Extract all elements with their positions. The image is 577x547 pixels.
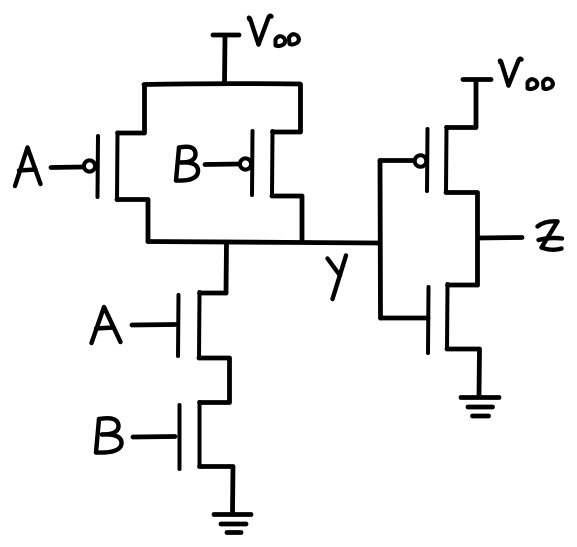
node Y rail — [148, 242, 379, 244]
label B (NMOS) — [96, 418, 122, 452]
label VDD2 — [500, 59, 553, 89]
wire inverter input vertical — [378, 161, 383, 319]
label Y — [328, 256, 347, 300]
wire Z node to Q6 drain — [448, 283, 478, 288]
ground GND1 — [214, 515, 251, 533]
wire Q5 drain to node Z — [446, 193, 478, 286]
ground GND2 — [461, 398, 499, 417]
power VDD1 symbol — [213, 35, 239, 83]
transistor Q2 (PMOS B) — [205, 131, 273, 196]
transistor Q4 (NMOS B) — [133, 402, 200, 469]
wire Q4 source to ground — [200, 467, 234, 513]
wire Y down to NMOS stack — [224, 242, 229, 293]
wire PMOS Q5 gate — [380, 158, 413, 163]
label A (PMOS) — [15, 148, 41, 187]
label Z — [538, 221, 563, 249]
wire Q6 gate — [381, 316, 429, 321]
transistor Q1 (PMOS A) — [51, 133, 118, 201]
transistor Q3 (NMOS A) — [132, 292, 200, 358]
wire to Q3 drain — [200, 291, 227, 296]
transistor Q5 (inverter PMOS) — [415, 127, 447, 192]
label VDD1 — [249, 16, 299, 46]
label B (PMOS) — [176, 147, 198, 181]
wire top rail — [144, 81, 300, 87]
wire output Z — [478, 235, 522, 240]
wire Q3 source to Q4 drain — [199, 358, 230, 403]
power VDD2 symbol — [463, 77, 491, 82]
wire Q6 source to ground — [447, 349, 480, 396]
wire left branch to PMOS Q1 source — [118, 85, 145, 133]
wire Q2 drain down to Y rail — [272, 196, 302, 242]
wire right branch to PMOS Q2 source — [273, 85, 301, 133]
wire Q5 source to VDD2 — [447, 80, 477, 128]
label A (NMOS) — [92, 307, 121, 343]
transistor Q6 (inverter NMOS) — [428, 284, 448, 353]
wire Q1 drain down to Y rail — [117, 200, 148, 242]
